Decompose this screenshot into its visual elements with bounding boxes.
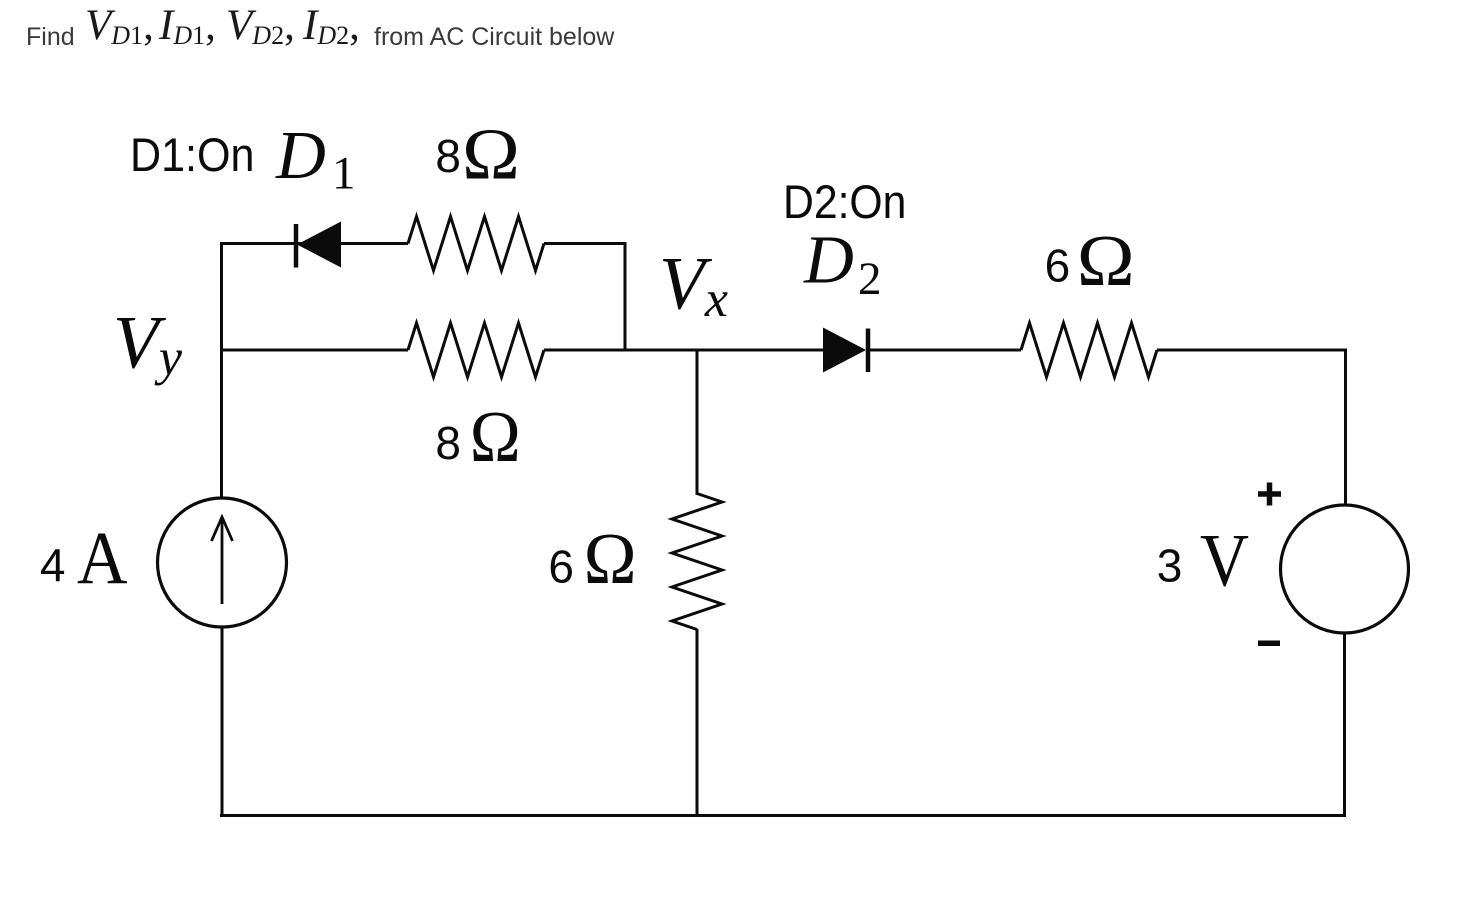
wire: middle resistor to diode D2 <box>544 349 824 352</box>
svg-text:Vy: Vy <box>113 302 183 387</box>
wire: bottom rail <box>220 814 1346 817</box>
current source I1 arrow shaft <box>221 519 224 604</box>
svg-text:from AC Circuit below: from AC Circuit below <box>374 23 615 51</box>
wire: current source to bottom rail <box>221 627 224 818</box>
wire: vertical resistor to bottom rail <box>696 629 699 817</box>
svg-text:8: 8 <box>435 417 461 469</box>
svg-text:VD1,: VD1, <box>85 2 154 50</box>
svg-text:Find: Find <box>26 23 75 51</box>
voltage source V1 <box>1281 505 1409 633</box>
svg-text:Ω: Ω <box>584 518 637 599</box>
wire: right vertical down to voltage source <box>1344 349 1347 506</box>
wire: top branch right segment <box>544 242 627 245</box>
wire: node Vy to middle resistor <box>222 349 409 352</box>
svg-text:4: 4 <box>40 539 66 591</box>
wire: node Vx to vertical resistor <box>696 349 699 496</box>
wire: right resistor to top-right corner <box>1157 349 1347 352</box>
wire: D2 to right resistor <box>866 349 1021 352</box>
svg-text:ID2,: ID2, <box>302 2 360 50</box>
diode D1 <box>297 222 341 268</box>
svg-text:Ω: Ω <box>462 114 520 195</box>
diode D1 cathode bar <box>294 224 299 268</box>
svg-text:Ω: Ω <box>1077 220 1135 301</box>
wire: top branch horizontal <box>222 242 409 245</box>
wire: voltage source to bottom rail <box>1343 633 1346 818</box>
svg-text:6: 6 <box>1045 239 1071 291</box>
resistor R1 8ohm top <box>408 217 544 271</box>
resistor R3 6ohm right <box>1021 323 1157 377</box>
diode D2 <box>823 328 866 373</box>
svg-text:V: V <box>1200 520 1249 603</box>
diode D2 cathode bar <box>866 329 871 373</box>
svg-text:6: 6 <box>548 541 574 593</box>
svg-text:D1: D1 <box>275 117 356 200</box>
wire: drop from top branch to node Vx <box>624 242 627 352</box>
voltage source V1 plus sign <box>1258 483 1281 506</box>
svg-text:A: A <box>77 517 128 600</box>
wire: left vertical node Vy <box>220 242 223 499</box>
svg-text:D2: D2 <box>803 222 882 305</box>
current source I1 arrow head <box>212 517 233 541</box>
resistor R2 8ohm middle <box>408 323 544 377</box>
svg-text:8: 8 <box>435 130 461 182</box>
svg-text:Ω: Ω <box>470 396 521 477</box>
svg-text:ID1,: ID1, <box>158 2 216 50</box>
voltage source V1 minus sign <box>1258 641 1280 647</box>
resistor R4 6ohm vertical <box>672 494 722 630</box>
svg-text:D1:On: D1:On <box>130 129 254 182</box>
svg-text:VD2,: VD2, <box>226 2 295 50</box>
svg-text:3: 3 <box>1157 540 1183 592</box>
current source I1 <box>158 498 287 627</box>
svg-text:Vx: Vx <box>659 243 728 328</box>
